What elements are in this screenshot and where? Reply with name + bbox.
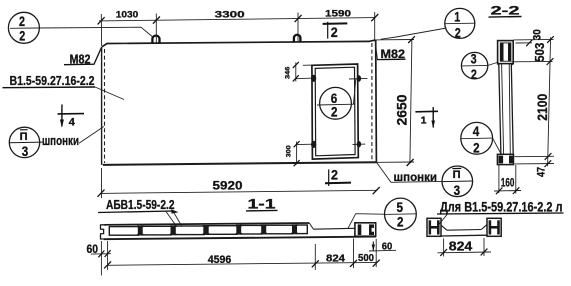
svg-text:2: 2 <box>19 28 25 44</box>
svg-text:2650: 2650 <box>393 94 409 125</box>
svg-text:30: 30 <box>532 29 544 40</box>
section mark 1 left with arrow <box>58 107 85 129</box>
svg-text:4: 4 <box>69 117 76 129</box>
dim 60 left of 1-1 <box>87 241 111 276</box>
slab 1-1 right jamb block <box>355 223 376 236</box>
svg-text:346: 346 <box>285 66 292 79</box>
svg-text:3: 3 <box>22 143 29 159</box>
svg-text:3: 3 <box>454 182 461 198</box>
label M82 right <box>375 41 405 61</box>
svg-text:Для В1.5-59.27.16-2.2 л: Для В1.5-59.27.16-2.2 л <box>440 200 563 215</box>
svg-text:5920: 5920 <box>213 179 243 193</box>
label for B1.5-59.27.16-2.2 <box>436 200 564 229</box>
detail circle 6/2 <box>317 79 356 120</box>
svg-text:300: 300 <box>286 145 293 157</box>
svg-text:60: 60 <box>382 240 393 252</box>
detail circle 3/2 <box>461 52 498 82</box>
detail circle 2/2 <box>8 12 152 43</box>
slab 1-1 outline <box>101 223 377 239</box>
2-2 right dimensions <box>512 37 554 166</box>
svg-text:1030: 1030 <box>116 10 139 21</box>
svg-text:В1.5-59.27.16-2.2: В1.5-59.27.16-2.2 <box>10 73 95 88</box>
label M82 left <box>64 48 101 67</box>
svg-text:1590: 1590 <box>325 9 351 20</box>
bottom dims 4596 / 824 / 500 <box>104 239 380 271</box>
detail right jamb block <box>487 218 501 236</box>
anchor mark right bottom <box>353 141 366 147</box>
svg-text:1: 1 <box>454 9 460 25</box>
svg-text:2: 2 <box>331 104 338 120</box>
svg-text:П: П <box>453 169 461 181</box>
vertical dim 2650 right <box>376 36 415 166</box>
svg-text:2100: 2100 <box>534 94 550 121</box>
svg-text:3300: 3300 <box>215 9 245 20</box>
svg-text:2: 2 <box>473 140 480 156</box>
dim 300 left of opening bottom <box>286 141 300 166</box>
svg-text:П: П <box>20 131 28 143</box>
svg-text:824: 824 <box>326 254 345 265</box>
dim 346 left of opening <box>285 62 312 82</box>
2-2 top key box <box>498 41 514 64</box>
label ABV1.5-59-2.2 <box>98 197 182 227</box>
dim 160 below 2-2 <box>494 165 521 194</box>
keys label left: circle II/3 <box>9 127 43 159</box>
svg-text:503: 503 <box>532 43 547 62</box>
dim ticks top <box>98 14 379 24</box>
detail left jamb block <box>427 218 441 236</box>
svg-text:160: 160 <box>501 175 515 189</box>
2-2 wall shaft <box>498 64 514 155</box>
svg-text:2-2: 2-2 <box>491 4 521 18</box>
dim 824 detail <box>438 238 492 257</box>
detail circle 5/2 <box>348 198 416 230</box>
slab 1-1 ribs dark <box>137 224 297 235</box>
section title 1-1 <box>246 196 278 211</box>
dim 60 right of 1-1 <box>369 240 396 252</box>
lifting loop 1 <box>152 36 159 44</box>
svg-text:2: 2 <box>331 25 338 40</box>
anchor mark right top <box>349 75 368 81</box>
svg-text:824: 824 <box>449 238 473 253</box>
keys label text left <box>42 127 104 148</box>
detail circle 1/2 <box>381 8 475 40</box>
detail circle 4/2 <box>461 122 502 155</box>
svg-text:47: 47 <box>535 167 547 177</box>
svg-text:АБВ1.5-59-2.2: АБВ1.5-59-2.2 <box>106 197 175 212</box>
svg-text:шпонки: шпонки <box>42 133 79 148</box>
svg-text:500: 500 <box>358 253 374 264</box>
svg-text:3: 3 <box>471 52 477 67</box>
overall dim 5920 <box>98 168 380 198</box>
2-2 bottom key block <box>497 154 513 164</box>
svg-text:2: 2 <box>397 214 404 230</box>
anchor mark left top <box>296 75 316 82</box>
svg-text:2: 2 <box>471 67 477 82</box>
section mark 1 right with arrow <box>415 107 438 128</box>
svg-text:2: 2 <box>19 13 25 29</box>
panel outline plan <box>102 40 377 165</box>
keys label text right <box>377 162 443 184</box>
slab 1-1 voids <box>109 225 307 235</box>
top dimension line <box>99 12 375 46</box>
svg-text:1-1: 1-1 <box>248 196 277 211</box>
section mark 2 top <box>323 22 348 40</box>
label B1.5-59.27.16-2.2 <box>3 73 125 100</box>
svg-text:4: 4 <box>473 123 480 139</box>
section title 2-2 <box>489 4 522 18</box>
keys label right: circle П/3 with shponki <box>442 166 473 198</box>
door opening inner frame <box>315 67 355 156</box>
section mark 2 bottom <box>325 168 351 186</box>
svg-text:2: 2 <box>455 24 461 40</box>
hidden edge left dashed <box>104 49 106 163</box>
svg-text:2: 2 <box>331 168 338 183</box>
anchor mark left bottom <box>296 141 316 148</box>
hidden edge right dashed <box>371 43 373 161</box>
detail web sill <box>441 225 487 236</box>
lifting loop 2 <box>294 35 301 43</box>
svg-text:1: 1 <box>421 115 427 127</box>
view mark 4 small left <box>61 105 63 108</box>
door opening outer frame <box>312 64 358 159</box>
svg-text:4596: 4596 <box>208 254 232 266</box>
svg-text:60: 60 <box>87 244 99 256</box>
